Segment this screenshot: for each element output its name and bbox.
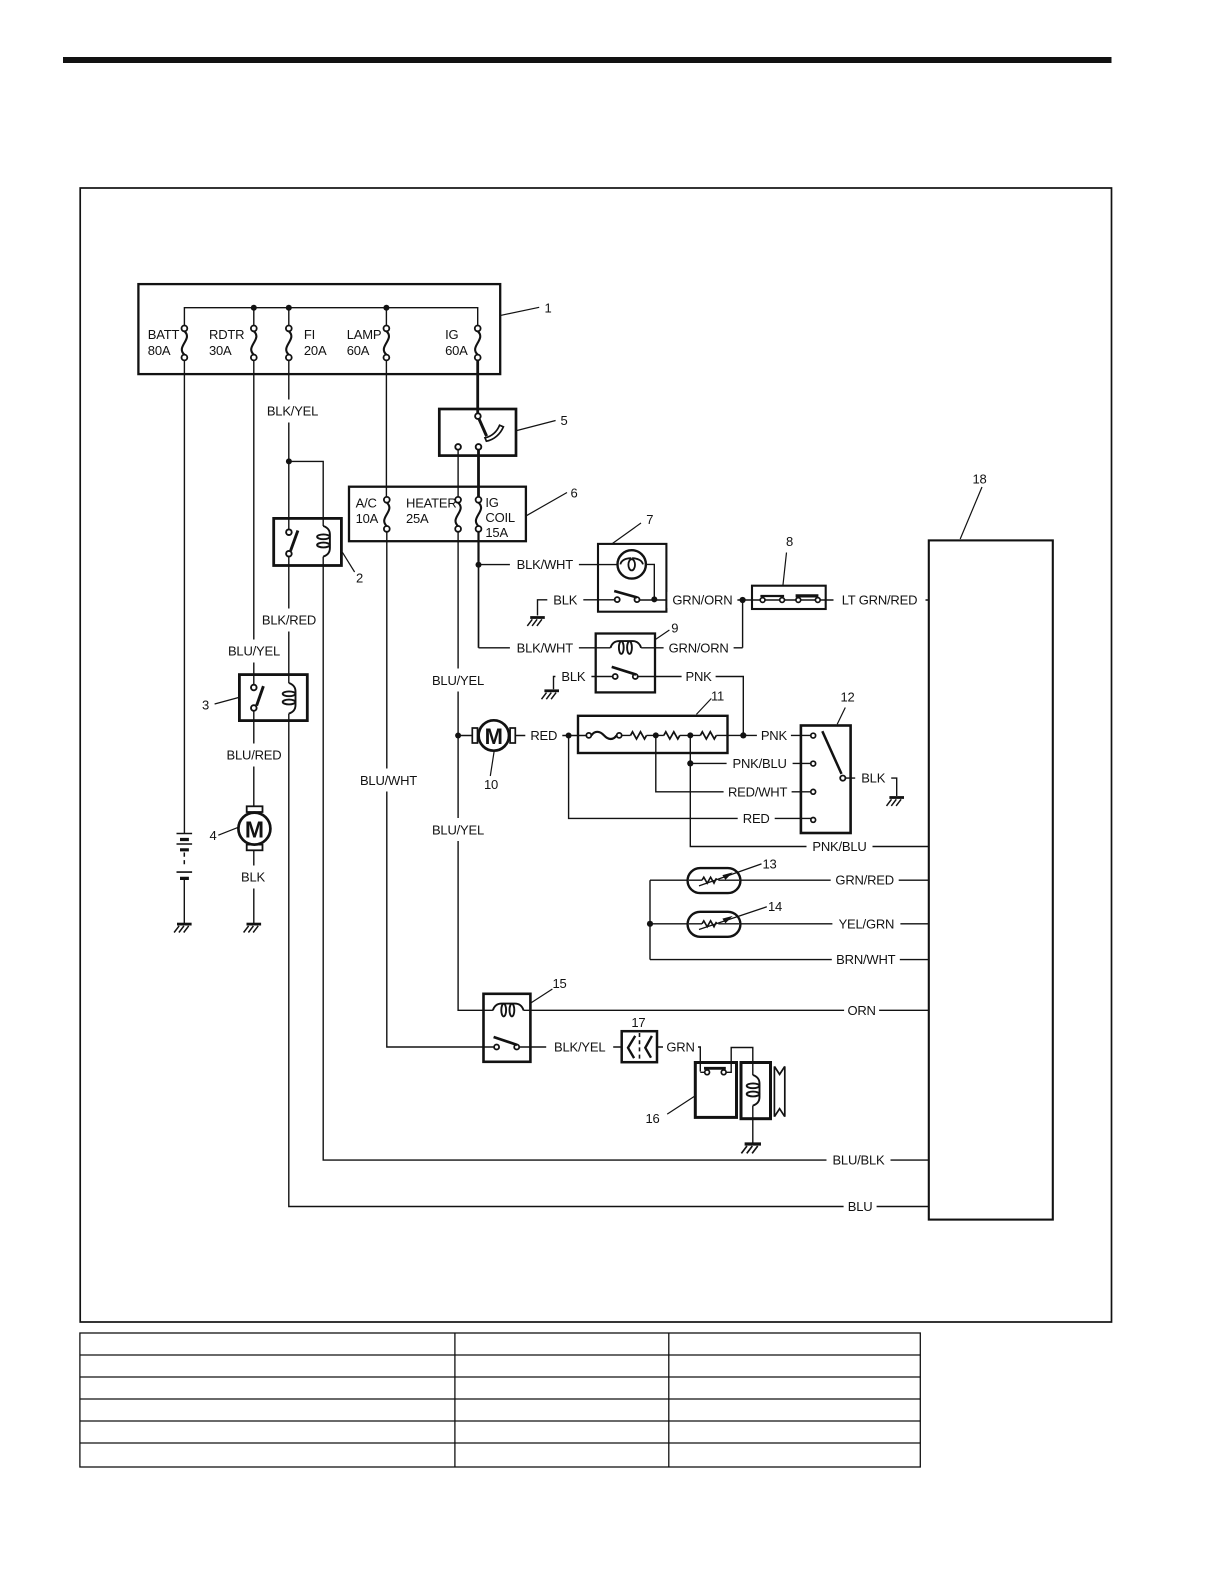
svg-text:RED: RED [530,728,557,743]
svg-text:A/C: A/C [356,496,377,511]
svg-text:6: 6 [570,486,577,501]
leader and label 7 [612,512,653,544]
svg-text:60A: 60A [445,343,468,358]
page top rule [63,57,1112,63]
compressor thermal switch wiring to magnet clutch [700,1048,753,1076]
wire: resistor tap RED to switch 12 [569,736,811,819]
dual pressure switch 8 [752,586,826,609]
leader and label 1 [501,301,552,316]
leader and label 4 [209,827,238,843]
svg-text:GRN: GRN [666,1040,694,1055]
svg-text:12: 12 [840,690,854,705]
wire: resistor tap PNK/BLU to switch 12 and connector 18 [690,735,929,846]
condenser fan motor 4 [238,806,270,850]
svg-text:BLU/WHT: BLU/WHT [360,773,417,788]
svg-text:BLK: BLK [561,669,586,684]
svg-text:BATT: BATT [148,327,180,342]
wire label PNK/BLU (resistor tap) [727,755,793,771]
svg-text:LT GRN/RED: LT GRN/RED [842,593,918,608]
fuse box 1 [138,284,500,374]
svg-text:GRN/ORN: GRN/ORN [669,640,729,655]
svg-text:7: 7 [646,512,653,527]
svg-text:IG: IG [445,327,458,342]
wire label GRN [663,1039,698,1055]
junction: BLK/WHT branch [476,562,482,568]
noise suppressor diode 17 [622,1031,657,1062]
wire: resistor tap RED/WHT to switch 12 [656,735,811,791]
svg-text:BLK: BLK [241,870,266,885]
wire: blower motor RED row through resistor 11 to blower switch 12 [461,734,811,736]
svg-text:15: 15 [552,976,566,991]
A/C cut relay 15 [484,994,531,1062]
fuse BATT 80A [148,326,188,361]
svg-text:1: 1 [544,301,551,316]
svg-text:FI: FI [304,327,315,342]
wire: A/C switch BLK to ground [538,600,616,616]
wire label BLU/YEL (RDTR fuse output) [226,640,283,663]
junction: blower motor branch [455,733,461,739]
svg-text:11: 11 [711,689,724,704]
wire label GRN/ORN (relay 9 coil out) [664,640,734,656]
svg-text:10: 10 [484,777,498,792]
wire label GRN/RED [831,872,899,888]
wire label YEL/GRN [832,916,900,932]
leader and label 9 [655,621,678,640]
svg-text:3: 3 [202,698,209,713]
svg-text:GRN/ORN: GRN/ORN [672,593,732,608]
leader and label 6 [526,486,577,516]
label 17 [631,1015,645,1030]
relay 2 (condenser fan relay) [274,518,342,565]
svg-text:4: 4 [209,828,216,843]
svg-text:PNK: PNK [686,669,713,684]
wire: relay 9 BLK to ground [554,677,613,690]
A/C switch 7 with illumination lamp [598,544,666,612]
wire label BLK/RED (relay 2 output) [260,609,318,632]
svg-text:BLU/BLK: BLU/BLK [832,1153,885,1168]
svg-text:60A: 60A [347,343,370,358]
leader and label 3 [202,698,239,713]
label 13 [762,856,776,871]
svg-text:BLK/YEL: BLK/YEL [267,404,318,419]
svg-text:BRN/WHT: BRN/WHT [836,952,896,967]
wire label BLK (motor 4 ground lead) [238,866,268,889]
svg-text:BLK/WHT: BLK/WHT [517,640,574,655]
leader and label 2 [342,552,363,585]
svg-text:BLK: BLK [861,771,886,786]
wire label BLK (relay 9 ground) [555,669,591,685]
diagram frame [80,188,1111,1322]
wire label RED/WHT (resistor tap) [724,784,792,800]
svg-text:RED: RED [743,811,770,826]
compressor 16 body [695,1063,736,1118]
junction: PNK/BLU tap [687,760,693,766]
svg-text:PNK: PNK [761,728,788,743]
ground: relay 9 [542,691,560,699]
svg-text:YEL/GRN: YEL/GRN [839,916,895,931]
leader and label 5 [517,413,568,431]
svg-text:16: 16 [645,1111,659,1126]
wire: relay 9 switch row PNK down to resistor node [638,677,743,736]
wire: blower switch BLK to ground [845,778,896,796]
wire label PNK (relay 9 out) [682,669,716,685]
svg-text:20A: 20A [304,343,327,358]
wire: GRN/ORN net from A/C switch 7 to pressure switch 8 and relay 9 [640,600,929,648]
thermistor 14 (ambient) [688,907,767,937]
svg-text:GRN/RED: GRN/RED [835,873,894,888]
svg-text:BLU/YEL: BLU/YEL [432,822,484,837]
wire: LAMP feed into A/C fuse, BLU/WHT down to relay 15 switch [386,360,494,1047]
leader and label 18 [960,471,986,539]
svg-text:2: 2 [356,571,363,586]
wire label BRN/WHT [832,952,900,968]
svg-text:BLU/YEL: BLU/YEL [432,673,484,688]
wire: BATT feed from fuse box to battery [183,360,185,833]
ground: blower switch 12 [887,798,905,806]
wire label GRN/ORN (A/C switch out) [667,592,737,608]
svg-text:ORN: ORN [847,1003,875,1018]
junction: motor feed [566,733,572,739]
wire label BLK (A/C switch ground) [547,592,583,608]
ground: magnet clutch [741,1144,761,1153]
svg-text:BLU/YEL: BLU/YEL [228,644,280,659]
svg-text:8: 8 [786,534,793,549]
wire: evaporator thermistor harness (GRN/RED, YEL/GRN, BRN/WHT rows) [650,880,929,959]
relay 3 (radiator fan relay) [239,675,307,721]
svg-text:HEATER: HEATER [406,496,457,511]
wire label BLK/WHT (to relay 9 coil) [510,640,579,656]
ignition switch 5 [439,409,516,456]
fuse HEATER 25A [406,496,461,532]
wire label PNK/BLU (to connector 18) [807,838,873,854]
A/C control unit connector 18 [929,540,1053,1219]
bus wire inside fuse box 1 [184,308,477,326]
junction: GRN/ORN node [740,597,746,603]
svg-text:M: M [245,817,264,843]
wire label BLU/BLK (to connector 18) [827,1152,891,1168]
wire label BLK (blower switch ground) [855,770,891,786]
svg-text:BLK/YEL: BLK/YEL [554,1040,605,1055]
svg-text:RDTR: RDTR [209,327,244,342]
wire label PNK (resistor out) [757,727,791,743]
svg-text:BLK/WHT: BLK/WHT [517,557,574,572]
wire: RDTR BLU/YEL feed down to relay 3 switch and fan motor 4 [253,360,255,924]
wire label BLU/YEL (HEATER fuse output, below motor) [430,818,487,841]
wire label BLU/WHT (A/C fuse output) [359,769,418,792]
leader and label 12 [837,690,854,725]
svg-text:17: 17 [631,1015,645,1030]
wire: relay 2 coil branch, BLU/BLK to connector 18 [289,461,929,1160]
svg-text:BLK: BLK [553,592,578,607]
wire label BLK/YEL (relay 15 out) [546,1039,613,1055]
fuse A/C 10A [356,496,390,532]
leader and label 10 [484,751,498,792]
fuse IG COIL 15A [476,495,515,540]
compressor pulley [774,1066,784,1116]
wire: IG COIL fuse output BLK/WHT to A/C switch 7 and relay 9 [479,532,621,648]
junction: thermistor harness [647,921,653,927]
junction: bus at LAMP fuse [383,305,389,311]
leader and label 15 [530,976,566,1003]
wire label RED (blower motor feed) [525,727,562,743]
fuse box 6 [349,487,526,542]
ground: battery [174,924,192,932]
magnet clutch coil box [741,1063,771,1143]
wire: ignition switch to IG COIL fuse (heavy) [477,450,480,497]
fuse RDTR 30A [209,326,257,361]
svg-text:9: 9 [671,621,678,636]
leader and label 16 [645,1096,695,1126]
blower switch 12 [801,726,851,834]
svg-text:PNK/BLU: PNK/BLU [732,756,786,771]
wire label BLU/YEL (HEATER fuse output, above motor) [430,669,487,692]
svg-text:M: M [485,724,503,749]
svg-text:COIL: COIL [485,510,515,525]
svg-text:14: 14 [768,899,782,914]
svg-text:BLU/RED: BLU/RED [227,748,282,763]
fuse FI 20A [286,326,327,361]
svg-text:18: 18 [972,471,986,486]
leader and label 11 [696,689,724,715]
blower relay 9 [596,634,655,693]
svg-text:RED/WHT: RED/WHT [728,784,788,799]
wire: ORN row from relay 15 coil to connector 18 [523,1009,928,1011]
fuse LAMP 60A [347,326,390,361]
svg-text:13: 13 [762,856,776,871]
svg-text:80A: 80A [148,343,171,358]
junction: bus at RDTR fuse [251,305,257,311]
junction at relay 2 branch [286,458,292,464]
wire label LT GRN/RED (pressure switch to connector 18) [834,592,926,608]
wire: relay 15 switch BLK/YEL row to diode 17 and GRN to compressor [519,1047,700,1072]
thermistor 13 (evaporator) [688,864,762,893]
wire label BLU (to connector 18) [844,1198,877,1214]
ground: A/C switch 7 [527,618,545,626]
wire: ignition switch to HEATER fuse [457,450,459,497]
wire label BLU/RED (relay 3 output) [226,744,283,767]
svg-text:PNK/BLU: PNK/BLU [812,839,866,854]
blower motor 10 [472,720,515,750]
svg-text:10A: 10A [356,511,379,526]
wire label BLK/WHT (to A/C switch) [510,557,579,573]
svg-text:BLU: BLU [848,1199,873,1214]
leader and label 8 [783,534,793,586]
junction: PNK node [740,732,746,738]
svg-text:LAMP: LAMP [347,327,382,342]
wire: IG feed to ignition switch 5 (heavy) [476,360,479,413]
svg-text:30A: 30A [209,343,232,358]
svg-text:25A: 25A [406,511,429,526]
blower resistor 11 [578,716,728,753]
svg-text:5: 5 [560,413,567,428]
junction: bus at FI fuse [286,305,292,311]
wire label BLK/YEL (FI fuse output) [263,400,322,423]
ground: fan motor 4 [244,924,262,932]
wire: HEATER fuse output BLU/YEL to blower motor 10 and relay 15 coil [458,532,493,1010]
label 14 [768,899,782,914]
bottom table [80,1333,920,1467]
battery [177,834,193,925]
svg-text:IG: IG [485,495,498,510]
fuse IG 60A [445,326,481,361]
wire label ORN [844,1002,879,1018]
svg-text:15A: 15A [485,525,508,540]
svg-text:BLK/RED: BLK/RED [262,613,316,628]
wire: FI BLK/YEL feed down through relay 2 switch, BLK/RED to relay 3 coil, BLU to connector 18 [289,360,929,1206]
wire label RED (resistor tap) [738,810,775,826]
